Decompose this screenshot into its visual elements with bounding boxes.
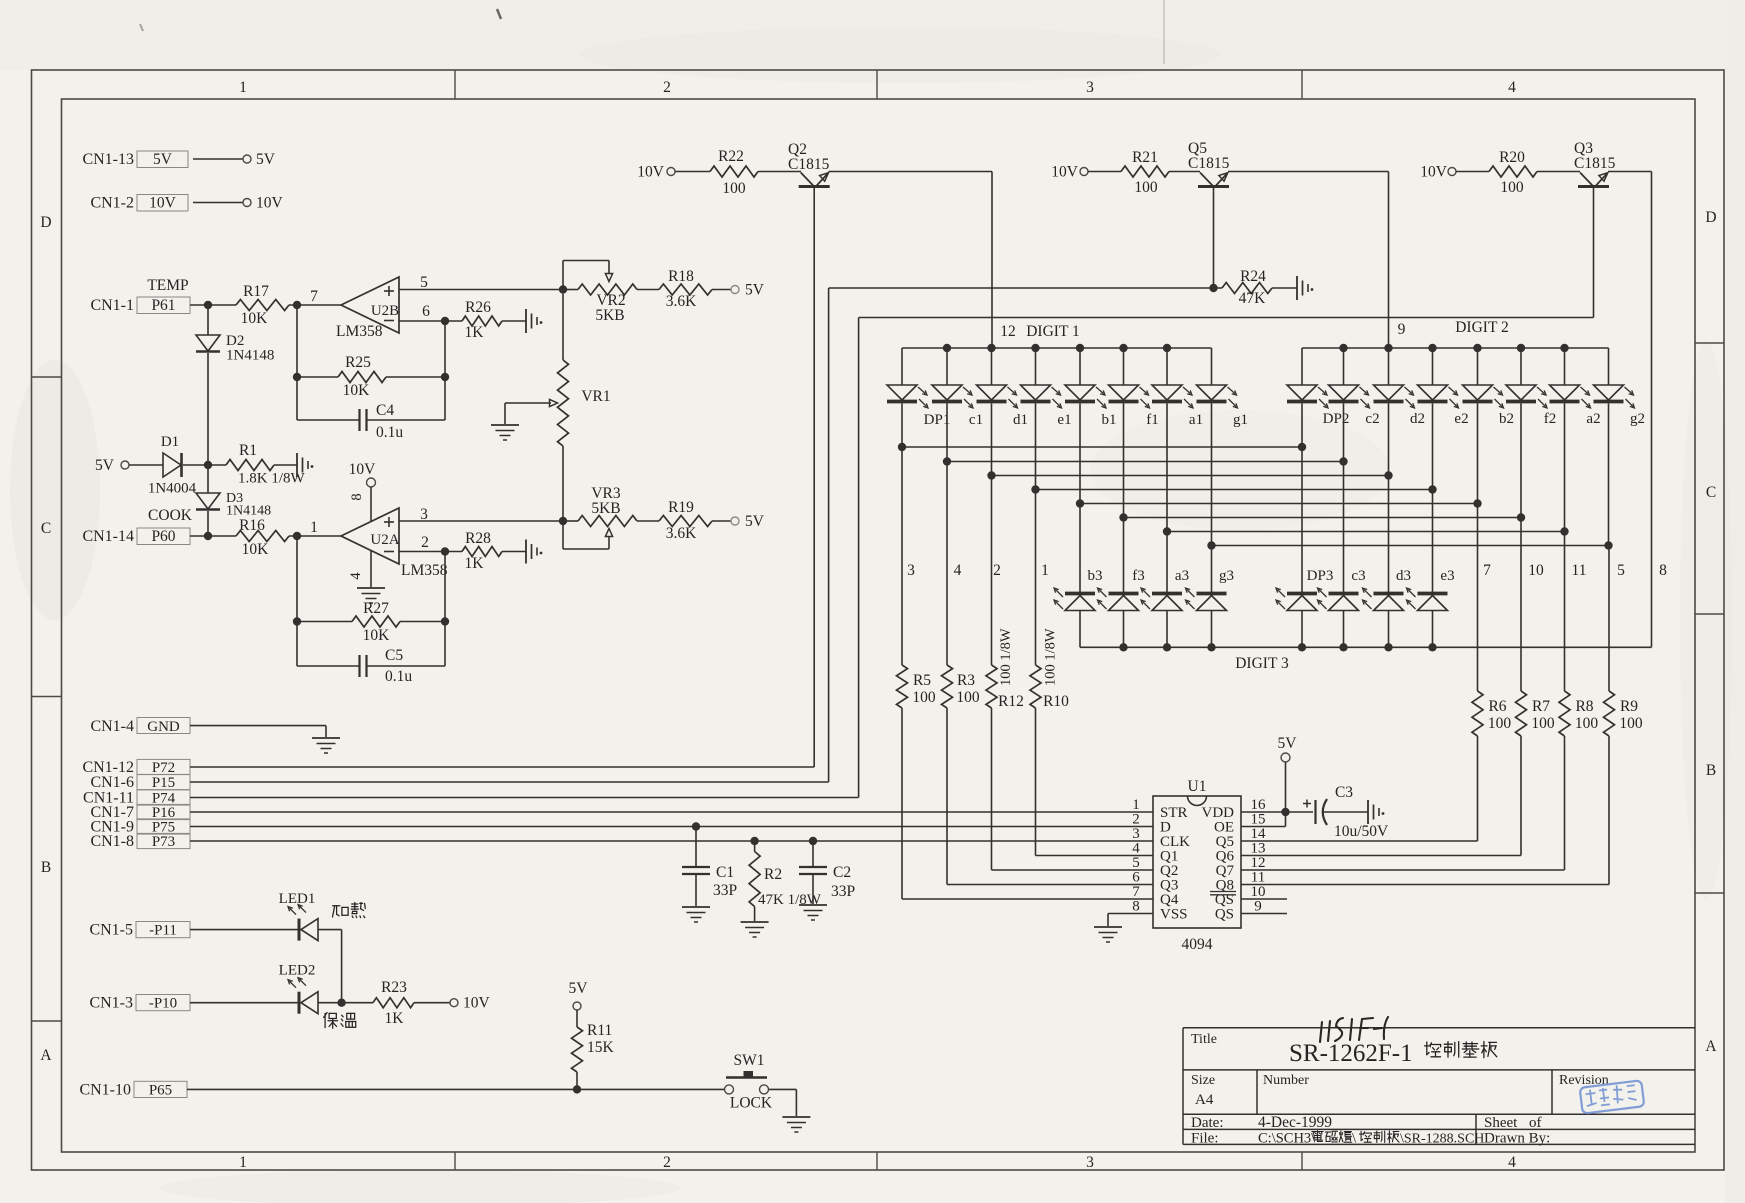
svg-text:B: B — [1706, 762, 1716, 779]
svg-text:DIGIT 3: DIGIT 3 — [1235, 655, 1289, 672]
resistor R17 — [236, 300, 289, 311]
LED d1 — [991, 348, 993, 385]
svg-text:7: 7 — [310, 288, 318, 305]
wire — [1272, 287, 1297, 289]
ground (R1) — [296, 453, 298, 477]
svg-text:D: D — [40, 214, 51, 231]
LED b1 — [1079, 348, 1081, 385]
LED f2 — [1520, 348, 1522, 385]
LED g2 — [1608, 348, 1610, 385]
LED c3 — [1343, 462, 1345, 593]
svg-text:1K: 1K — [465, 324, 485, 341]
svg-text:DP2: DP2 — [1323, 411, 1350, 427]
wire — [190, 840, 1153, 842]
svg-text:8: 8 — [349, 493, 365, 500]
svg-text:C2: C2 — [833, 864, 851, 881]
svg-text:U1: U1 — [1188, 778, 1207, 795]
svg-text:Drawn By:: Drawn By: — [1484, 1131, 1550, 1147]
wire — [190, 781, 829, 783]
wire Q5 base — [1213, 188, 1215, 288]
LED e3 — [1432, 490, 1434, 593]
svg-text:QS: QS — [1215, 907, 1234, 923]
svg-text:100: 100 — [1488, 715, 1512, 732]
terminal 5V (R18) — [731, 286, 739, 294]
scan artifacts — [1163, 0, 1165, 64]
svg-text:CN1-8: CN1-8 — [90, 833, 134, 850]
wire — [274, 464, 297, 466]
svg-text:R26: R26 — [465, 299, 491, 316]
svg-text:TEMP: TEMP — [147, 277, 188, 294]
ground (C1) — [682, 906, 710, 908]
svg-text:P73: P73 — [152, 834, 175, 850]
resistor R27 — [297, 621, 352, 623]
label 加熱 — [333, 905, 340, 907]
svg-text:R21: R21 — [1132, 149, 1158, 166]
svg-text:1.8K 1/8W: 1.8K 1/8W — [238, 471, 306, 487]
svg-text:0.1u: 0.1u — [385, 668, 412, 685]
LED DP1 — [901, 348, 903, 385]
wire Q3 base — [1593, 188, 1595, 318]
potentiometer VR1 — [562, 294, 564, 360]
svg-text:100: 100 — [722, 180, 746, 197]
wire U1 QS pins — [1241, 898, 1287, 900]
LED c2 — [1343, 348, 1345, 385]
wire — [502, 551, 526, 553]
junction C1 on D line — [692, 822, 700, 830]
svg-text:2: 2 — [993, 562, 1001, 579]
terminal 10V — [243, 199, 251, 207]
svg-text:R22: R22 — [718, 148, 744, 165]
wire — [1537, 171, 1580, 173]
svg-text:R18: R18 — [668, 268, 694, 285]
wire — [129, 464, 163, 466]
svg-text:U2A: U2A — [370, 532, 399, 548]
LED f1 — [1123, 348, 1125, 385]
resistor R8 100 — [1564, 532, 1566, 692]
wire — [712, 289, 731, 291]
svg-text:8: 8 — [1659, 562, 1667, 579]
svg-text:A: A — [1705, 1038, 1717, 1055]
svg-text:CN1-10: CN1-10 — [79, 1081, 131, 1098]
svg-text:D1: D1 — [161, 434, 179, 450]
wire — [414, 1002, 450, 1004]
svg-text:10: 10 — [1528, 562, 1544, 579]
svg-text:d1: d1 — [1013, 412, 1028, 428]
svg-text:c1: c1 — [969, 412, 983, 428]
svg-text:U2B: U2B — [371, 303, 399, 319]
blue stamp — [1580, 1080, 1645, 1113]
svg-text:LED2: LED2 — [279, 963, 316, 979]
svg-text:P65: P65 — [149, 1082, 172, 1098]
svg-text:d2: d2 — [1410, 411, 1425, 427]
svg-text:R24: R24 — [1240, 268, 1266, 285]
svg-text:P72: P72 — [152, 760, 175, 776]
svg-text:b1: b1 — [1102, 412, 1117, 428]
svg-text:R27: R27 — [363, 600, 389, 617]
svg-text:e3: e3 — [1440, 568, 1454, 584]
svg-text:100: 100 — [912, 689, 936, 706]
resistor R21 100 — [1121, 166, 1169, 177]
feedback node wires U2B — [296, 305, 298, 420]
wire — [1088, 171, 1121, 173]
junction — [204, 532, 212, 540]
svg-text:SW1: SW1 — [734, 1052, 765, 1069]
svg-text:VSS: VSS — [1160, 907, 1188, 923]
svg-text:g1: g1 — [1233, 412, 1248, 428]
capacitor C4 — [297, 419, 360, 421]
terminal 5V (R19) — [731, 517, 739, 525]
svg-text:2: 2 — [663, 1154, 671, 1171]
wire — [1456, 171, 1489, 173]
resistor R25 — [297, 376, 338, 378]
svg-text:10V: 10V — [463, 995, 491, 1012]
svg-text:R2: R2 — [764, 866, 782, 883]
LED b2 — [1477, 348, 1479, 385]
svg-text:4: 4 — [1508, 79, 1516, 96]
svg-text:9: 9 — [1398, 321, 1406, 338]
svg-text:11: 11 — [1572, 562, 1587, 579]
wire riser P15 — [828, 288, 830, 782]
svg-text:C1815: C1815 — [1188, 155, 1230, 172]
svg-text:b3: b3 — [1088, 568, 1103, 584]
wire — [187, 1088, 725, 1090]
svg-text:5V: 5V — [745, 282, 765, 299]
svg-text:4094: 4094 — [1182, 936, 1213, 953]
svg-text:R6: R6 — [1488, 698, 1506, 715]
svg-text:7: 7 — [1483, 562, 1491, 579]
svg-text:File:: File: — [1191, 1131, 1219, 1147]
resistor R6 100 — [1477, 504, 1479, 692]
wire Q3 emitter to digit3 — [1608, 171, 1652, 173]
svg-text:5V: 5V — [256, 151, 276, 168]
resistor R3 100 — [946, 462, 948, 666]
ground (C2) — [799, 904, 827, 906]
op-amp U2A — [341, 508, 399, 564]
wire to U1 — [1241, 884, 1609, 886]
wire — [289, 304, 341, 306]
svg-text:DIGIT 1: DIGIT 1 — [1026, 323, 1080, 340]
capacitor C3 10u/50V — [1303, 803, 1311, 805]
ground (VR1) — [491, 424, 519, 426]
resistor R5 100 — [901, 447, 903, 665]
wire to U1 — [1241, 840, 1478, 842]
svg-text:8: 8 — [1132, 899, 1140, 915]
svg-text:R1: R1 — [239, 442, 257, 459]
svg-text:\SR-1288.SCH: \SR-1288.SCH — [1400, 1132, 1484, 1147]
svg-text:4: 4 — [348, 572, 364, 580]
svg-text:CN1-6: CN1-6 — [90, 774, 134, 791]
svg-text:C1815: C1815 — [788, 156, 830, 173]
svg-text:R19: R19 — [668, 499, 694, 516]
potentiometer VR3 5KB — [563, 520, 578, 522]
LED c1 — [946, 348, 948, 385]
svg-text:12: 12 — [1000, 323, 1016, 340]
svg-text:g2: g2 — [1630, 411, 1645, 427]
svg-text:100: 100 — [1134, 179, 1158, 196]
svg-text:f2: f2 — [1544, 411, 1557, 427]
svg-text:DIGIT 2: DIGIT 2 — [1455, 319, 1509, 336]
svg-text:-P10: -P10 — [149, 996, 177, 1012]
IC U1 4094 — [1153, 796, 1241, 928]
wire — [712, 520, 731, 522]
svg-text:f3: f3 — [1132, 568, 1145, 584]
svg-text:CN1-4: CN1-4 — [90, 718, 134, 735]
svg-text:R9: R9 — [1620, 698, 1638, 715]
svg-text:10K: 10K — [241, 310, 269, 327]
segment bus wires — [902, 446, 1302, 448]
wire U1 VSS to ground — [1108, 913, 1153, 915]
svg-text:3: 3 — [907, 562, 915, 579]
title block — [1183, 1027, 1695, 1029]
svg-text:R20: R20 — [1499, 149, 1525, 166]
svg-text:SR-1262F-1: SR-1262F-1 — [1289, 1040, 1413, 1067]
svg-text:CN1-1: CN1-1 — [90, 297, 134, 314]
capacitor C5 — [297, 665, 360, 667]
wire — [318, 929, 342, 931]
svg-text:4-Dec-1999: 4-Dec-1999 — [1258, 1114, 1332, 1131]
svg-text:47K: 47K — [1239, 290, 1267, 307]
svg-text:1: 1 — [310, 519, 318, 536]
svg-text:C1: C1 — [716, 864, 734, 881]
wire riser P74 — [858, 318, 860, 798]
wire — [289, 535, 341, 537]
LED d3 — [1388, 476, 1390, 593]
svg-text:100 1/8W: 100 1/8W — [1043, 628, 1059, 686]
svg-text:10u/50V: 10u/50V — [1334, 823, 1389, 840]
node DIGIT 3 rail — [1080, 646, 1652, 648]
svg-text:10V: 10V — [1051, 164, 1079, 181]
wire — [637, 289, 659, 291]
ground (R2) — [741, 921, 769, 923]
svg-text:6: 6 — [422, 303, 430, 320]
svg-text:R7: R7 — [1532, 698, 1550, 715]
resistor R20 100 — [1489, 166, 1537, 177]
LED a3 — [1166, 532, 1168, 593]
svg-text:P60: P60 — [151, 528, 175, 545]
zone ticks bottom — [454, 1152, 456, 1170]
wire — [190, 1002, 298, 1004]
svg-text:100: 100 — [1500, 179, 1524, 196]
svg-text:R25: R25 — [345, 354, 371, 371]
zone ticks right — [1695, 342, 1724, 344]
LED g1 — [1211, 348, 1213, 385]
ground (CN1-4) — [312, 737, 340, 739]
svg-text:2: 2 — [663, 79, 671, 96]
svg-text:of: of — [1529, 1115, 1542, 1131]
junction — [337, 999, 345, 1007]
svg-text:C1815: C1815 — [1574, 155, 1616, 172]
wire — [190, 725, 326, 727]
wire — [190, 811, 1153, 813]
wire — [190, 797, 859, 799]
svg-text:1: 1 — [239, 1154, 247, 1171]
svg-text:5: 5 — [420, 274, 428, 291]
wire — [318, 1002, 342, 1004]
svg-text:Title: Title — [1191, 1032, 1217, 1047]
svg-text:5V: 5V — [95, 457, 115, 474]
wire to U1 — [1241, 855, 1521, 857]
svg-text:10V: 10V — [637, 164, 665, 181]
svg-text:Date:: Date: — [1191, 1115, 1223, 1131]
resistor R18 3.6K — [659, 284, 712, 295]
wire — [342, 1002, 373, 1004]
svg-text:a3: a3 — [1175, 568, 1189, 584]
wire — [193, 202, 243, 204]
svg-text:R12: R12 — [998, 693, 1024, 710]
svg-text:LOCK: LOCK — [730, 1095, 773, 1112]
svg-text:100: 100 — [1575, 715, 1599, 732]
wire Q2 base riser — [813, 188, 815, 767]
feedback node wires U2A — [296, 536, 298, 666]
wire P15 to Q5 base — [829, 287, 1222, 289]
svg-text:B: B — [41, 859, 51, 876]
junction pin3/VR3 — [559, 517, 567, 525]
resistor R1 — [226, 460, 274, 471]
svg-text:1: 1 — [1041, 562, 1049, 579]
svg-text:R10: R10 — [1043, 693, 1069, 710]
svg-text:3: 3 — [1086, 79, 1094, 96]
svg-text:a2: a2 — [1586, 411, 1600, 427]
wire — [502, 320, 526, 322]
svg-text:d3: d3 — [1396, 568, 1411, 584]
svg-text:D: D — [1705, 209, 1716, 226]
svg-text:R23: R23 — [381, 979, 407, 996]
svg-text:C: C — [41, 520, 51, 537]
svg-text:CN1-14: CN1-14 — [82, 528, 134, 545]
svg-text:1N4004: 1N4004 — [148, 481, 197, 497]
wire — [183, 464, 226, 466]
LED DP2 — [1301, 348, 1303, 385]
svg-text:Size: Size — [1191, 1073, 1215, 1088]
resistor R16 — [236, 531, 289, 542]
svg-text:5KB: 5KB — [591, 500, 620, 517]
resistor R12 100 1/8W — [991, 476, 993, 666]
svg-text:0.1u: 0.1u — [376, 424, 403, 441]
resistor R23 1K — [373, 998, 414, 1008]
wire — [193, 158, 243, 160]
op-amp U2B — [341, 277, 399, 333]
svg-text:9: 9 — [1254, 899, 1262, 915]
svg-text:10V: 10V — [1420, 164, 1448, 181]
svg-text:100: 100 — [1619, 715, 1643, 732]
potentiometer VR2 5KB — [563, 289, 578, 291]
wire — [758, 171, 801, 173]
svg-text:1N4148: 1N4148 — [226, 348, 274, 364]
svg-text:R28: R28 — [465, 530, 491, 547]
svg-text:C: C — [1706, 484, 1716, 501]
wire to U1 pin 6 — [947, 884, 1153, 886]
wire Q5 emitter to digit2 — [1228, 171, 1389, 173]
svg-text:C3: C3 — [1335, 784, 1353, 801]
svg-text:A4: A4 — [1195, 1092, 1214, 1108]
transistor Q2 C1815 — [799, 185, 830, 188]
junction pin5/VR2 — [559, 285, 567, 293]
wire — [190, 304, 236, 306]
svg-text:2: 2 — [421, 534, 429, 551]
resistor R7 100 — [1520, 518, 1522, 692]
LED g3 — [1211, 546, 1213, 593]
svg-text:100 1/8W: 100 1/8W — [998, 628, 1014, 686]
ground (R26) — [525, 309, 527, 333]
svg-text:LED1: LED1 — [279, 891, 316, 907]
svg-text:A: A — [40, 1047, 52, 1064]
svg-text:10V: 10V — [349, 461, 377, 478]
svg-text:R11: R11 — [587, 1022, 612, 1039]
transistor Q5 C1815 — [1198, 185, 1229, 188]
svg-text:C4: C4 — [376, 402, 394, 419]
wire Q2 emitter to digit1 — [829, 171, 993, 173]
resistor R26 — [462, 316, 502, 326]
resistor R11 15K — [572, 1027, 583, 1072]
svg-text:R17: R17 — [243, 283, 269, 300]
svg-text:R3: R3 — [957, 672, 975, 689]
wire — [769, 1088, 797, 1090]
svg-text:33P: 33P — [831, 883, 855, 900]
ground (R24) — [1296, 276, 1298, 300]
LED b3 — [1079, 504, 1081, 593]
svg-text:5V: 5V — [569, 980, 589, 997]
pin 4 ground — [370, 551, 372, 588]
svg-text:g3: g3 — [1219, 568, 1234, 584]
wire — [190, 929, 298, 931]
svg-text:33P: 33P — [713, 882, 737, 899]
LED LED1 — [298, 919, 301, 941]
VR1 wiper arrow — [505, 402, 551, 404]
label 保温 — [324, 1013, 326, 1027]
LED LED2 — [298, 992, 301, 1014]
LED d2 — [1388, 348, 1390, 385]
junction — [573, 1085, 581, 1093]
LED DP3 — [1301, 447, 1303, 592]
svg-text:R16: R16 — [239, 517, 265, 534]
junction R2 on CLK line — [750, 837, 758, 845]
svg-text:e2: e2 — [1454, 411, 1468, 427]
svg-text:VR1: VR1 — [581, 388, 610, 405]
svg-text:4: 4 — [954, 562, 962, 579]
svg-text:3: 3 — [1086, 1154, 1094, 1171]
svg-text:P61: P61 — [151, 297, 175, 314]
svg-text:4: 4 — [1508, 1154, 1516, 1171]
svg-text:CN1-13: CN1-13 — [82, 151, 134, 168]
resistor R22 100 — [710, 166, 758, 177]
svg-text:c2: c2 — [1365, 411, 1379, 427]
resistor R9 100 — [1608, 546, 1610, 692]
wire to U1 pin 5 — [992, 869, 1154, 871]
svg-text:R5: R5 — [913, 672, 931, 689]
terminal 10V (R23) — [450, 999, 458, 1007]
wire to U1 pin 4 — [1036, 855, 1154, 857]
ground (R28) — [525, 540, 527, 564]
svg-text:c3: c3 — [1351, 568, 1365, 584]
LED a2 — [1564, 348, 1566, 385]
zone ticks top — [454, 70, 456, 99]
wire to U1 pin 7 — [902, 898, 1153, 900]
junction — [293, 301, 301, 309]
svg-text:10K: 10K — [343, 382, 371, 399]
svg-text:f1: f1 — [1146, 412, 1159, 428]
svg-text:5V: 5V — [153, 151, 173, 168]
transistor Q3 C1815 — [1578, 185, 1609, 188]
svg-text:a1: a1 — [1189, 412, 1203, 428]
diode D2 1N4148 — [207, 305, 209, 335]
LED a1 — [1166, 348, 1168, 385]
resistor R28 — [462, 547, 502, 557]
svg-text:DP3: DP3 — [1307, 568, 1334, 584]
resistor R2 47K 1/8W — [754, 841, 756, 852]
resistor R19 3.6K — [659, 516, 712, 527]
svg-text:CN1-3: CN1-3 — [89, 995, 133, 1012]
handwriting 1151F-1 — [1320, 1017, 1388, 1042]
